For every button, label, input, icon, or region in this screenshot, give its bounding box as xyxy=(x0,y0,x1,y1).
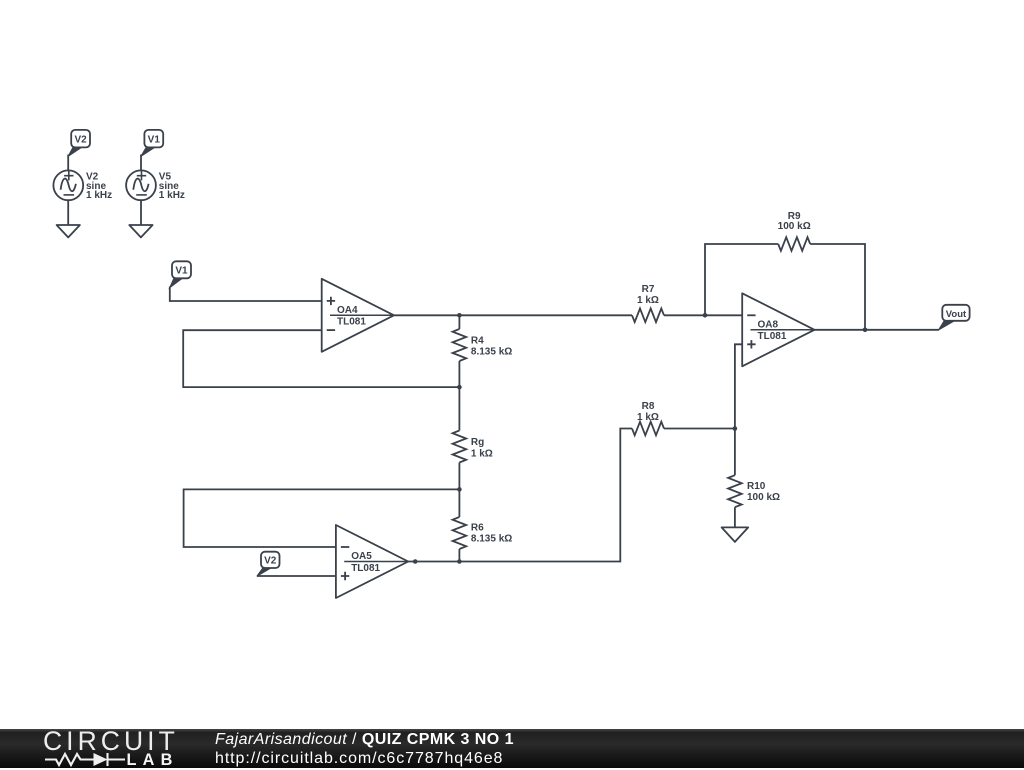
footer credit text xyxy=(215,731,514,768)
net flag V2 (above source V2) xyxy=(68,130,90,157)
net flag Vout xyxy=(939,305,970,330)
svg-text:OA8: OA8 xyxy=(758,320,779,331)
junction node: R7 / R9 at OA8 inverting input xyxy=(703,313,708,318)
wire: V1 flag to OA4 noninverting input xyxy=(170,287,322,302)
label: V5 sine 1 kHz xyxy=(159,172,185,201)
svg-text:V1: V1 xyxy=(175,266,188,277)
junction node: OA4 output / R4 top xyxy=(457,313,462,318)
logo text LAB xyxy=(127,752,179,768)
ground (under source V2) xyxy=(57,225,80,237)
junction node: OA5 output xyxy=(413,559,418,564)
CircuitLab logo text CIRCUIT xyxy=(43,728,179,755)
op-amp OA4 TL081 xyxy=(322,279,394,352)
voltage source V2 (sine) xyxy=(53,170,83,200)
resistor R6 8.135 k xyxy=(453,489,513,561)
svg-text:Vout: Vout xyxy=(946,309,967,320)
wire: OA5 output / R6 bottom rail to R8 xyxy=(408,429,632,562)
svg-text:8.135 kΩ: 8.135 kΩ xyxy=(471,347,512,358)
ground (under R10) xyxy=(722,527,749,542)
wire: R9 feedback loop (OA8 - input up and over to output) xyxy=(705,244,778,315)
svg-text:1 kΩ: 1 kΩ xyxy=(637,412,659,423)
svg-text:TL081: TL081 xyxy=(758,331,787,342)
wire: R9 right side down to output node xyxy=(810,244,865,330)
svg-text:OA4: OA4 xyxy=(337,305,358,316)
resistor R10 100 k xyxy=(728,429,780,528)
net flag V1 (above source V5) xyxy=(141,130,163,157)
junction node: R8 / R10 / OA8 + xyxy=(733,426,738,431)
junction node: R4 bottom / Rg top / OA4 feedback xyxy=(457,385,462,390)
svg-text:1 kΩ: 1 kΩ xyxy=(637,295,659,306)
svg-text:V2: V2 xyxy=(74,134,87,145)
wire: OA4 output to R7 xyxy=(394,314,632,316)
junction node: Rg bottom / R6 top / OA5 feedback xyxy=(457,487,462,492)
net flag V2 (input to OA5 +) xyxy=(257,552,280,577)
net flag V1 (input to OA4 +) xyxy=(170,261,191,288)
svg-text:100 kΩ: 100 kΩ xyxy=(778,221,811,232)
resistor R9 100 k xyxy=(778,211,811,251)
svg-text:1 kHz: 1 kHz xyxy=(86,190,112,201)
junction node: R6 bottom on output rail xyxy=(457,559,462,564)
svg-text:OA5: OA5 xyxy=(351,551,372,562)
wire: V2 flag to OA5 noninverting input xyxy=(257,575,336,577)
wire: V1 flag tail to source V5 top xyxy=(140,155,142,171)
resistor R8 1 k xyxy=(632,401,735,435)
svg-text:Rg: Rg xyxy=(471,437,484,448)
wire: source V5 bottom to ground xyxy=(140,200,142,225)
ground (under source V5) xyxy=(129,225,152,237)
wire: OA8 noninverting input down to R8/R10 node xyxy=(735,344,742,428)
svg-text:V1: V1 xyxy=(148,134,161,145)
svg-text:TL081: TL081 xyxy=(351,563,380,574)
op-amp OA5 TL081 xyxy=(336,525,408,598)
wire: source V2 bottom to ground xyxy=(67,200,69,225)
label: V2 sine 1 kHz xyxy=(86,172,112,201)
svg-text:1 kHz: 1 kHz xyxy=(159,190,185,201)
svg-text:8.135 kΩ: 8.135 kΩ xyxy=(471,534,512,545)
svg-text:R6: R6 xyxy=(471,522,484,533)
footer bar xyxy=(0,729,1024,768)
svg-text:TL081: TL081 xyxy=(337,317,366,328)
resistor Rg 1 k xyxy=(453,387,493,489)
op-amp OA8 TL081 xyxy=(742,293,814,366)
svg-text:R7: R7 xyxy=(642,284,655,295)
svg-text:1 kΩ: 1 kΩ xyxy=(471,448,493,459)
svg-text:V2: V2 xyxy=(264,555,277,566)
voltage source V5 (sine) xyxy=(126,170,156,200)
svg-text:R8: R8 xyxy=(642,401,655,412)
junction node: OA8 output / R9 xyxy=(863,328,868,333)
wire: OA8 output to Vout flag xyxy=(815,329,940,331)
resistor R4 8.135 k xyxy=(453,315,513,387)
wire: V2 flag tail to source V2 top xyxy=(67,155,69,171)
CircuitLab logo resistor-diode graphic xyxy=(0,750,190,770)
svg-text:R4: R4 xyxy=(471,335,484,346)
wire: R7 to OA8 inverting input xyxy=(664,314,742,316)
svg-text:R10: R10 xyxy=(747,481,766,492)
resistor R7 1 k xyxy=(632,284,664,322)
svg-text:100 kΩ: 100 kΩ xyxy=(747,492,780,503)
wire: OA4 inverting input feedback loop to node below R4 xyxy=(183,330,459,387)
wire: OA5 inverting input loop to node between Rg and R6 xyxy=(184,489,460,547)
